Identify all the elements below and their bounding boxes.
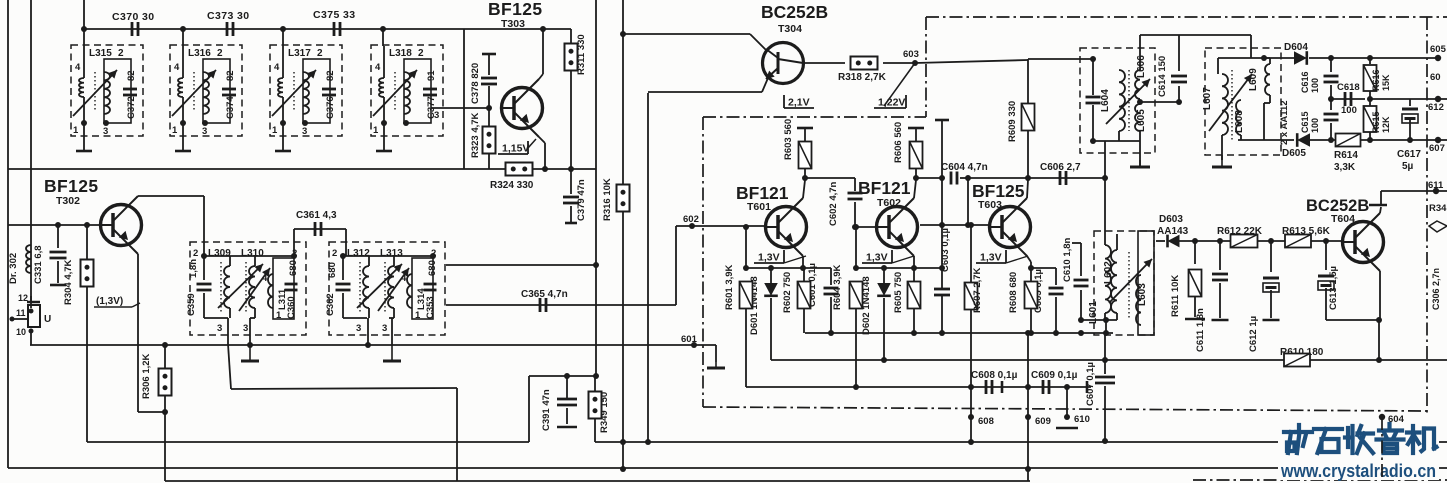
svg-text:R306 1,2K: R306 1,2K <box>141 353 152 399</box>
svg-text:2: 2 <box>193 248 198 259</box>
svg-text:C603 0,1µ: C603 0,1µ <box>940 228 951 272</box>
svg-text:C306 2,7n: C306 2,7n <box>1431 268 1441 310</box>
svg-text:3: 3 <box>302 126 307 137</box>
svg-text:605: 605 <box>1430 44 1447 55</box>
svg-text:C361 4,3: C361 4,3 <box>296 210 337 221</box>
svg-text:C613 1,5µ: C613 1,5µ <box>1328 266 1339 310</box>
svg-text:R614: R614 <box>1334 150 1358 161</box>
svg-text:3: 3 <box>103 126 108 137</box>
svg-text:82: 82 <box>325 70 336 81</box>
svg-text:12: 12 <box>18 293 28 303</box>
svg-text:C618: C618 <box>1337 82 1360 93</box>
svg-text:L605: L605 <box>1136 109 1147 132</box>
svg-text:C375 33: C375 33 <box>313 9 356 21</box>
svg-text:3,3K: 3,3K <box>1334 162 1356 173</box>
svg-text:1: 1 <box>373 125 379 136</box>
svg-text:R349 150: R349 150 <box>599 392 610 433</box>
svg-text:R615: R615 <box>1371 111 1381 133</box>
svg-text:(1,3V): (1,3V) <box>96 296 123 307</box>
svg-text:611: 611 <box>1428 180 1444 191</box>
svg-text:C353: C353 <box>425 296 436 319</box>
svg-text:2 x AA112: 2 x AA112 <box>1279 100 1290 145</box>
svg-text:R318 2,7K: R318 2,7K <box>838 72 887 83</box>
svg-text:D605: D605 <box>1282 148 1306 159</box>
svg-text:C609 0,1µ: C609 0,1µ <box>1031 370 1078 381</box>
svg-text:609: 609 <box>1035 416 1051 427</box>
svg-text:1: 1 <box>172 125 178 136</box>
svg-text:4: 4 <box>174 62 180 73</box>
svg-text:R607 2,7K: R607 2,7K <box>972 267 983 313</box>
svg-text:R304 4,7K: R304 4,7K <box>63 259 74 305</box>
svg-text:3: 3 <box>434 110 439 121</box>
svg-text:5µ: 5µ <box>1402 161 1414 172</box>
svg-text:4: 4 <box>75 62 81 73</box>
svg-text:L608: L608 <box>1234 110 1245 133</box>
svg-text:R324 330: R324 330 <box>490 180 534 191</box>
svg-text:D603: D603 <box>1159 214 1183 225</box>
svg-text:1,3V: 1,3V <box>980 252 1002 264</box>
svg-text:L603: L603 <box>1137 283 1148 306</box>
svg-text:C604 4,7n: C604 4,7n <box>941 162 988 173</box>
svg-text:3: 3 <box>356 323 361 334</box>
svg-text:10: 10 <box>16 327 26 337</box>
svg-text:T601: T601 <box>747 201 771 213</box>
svg-text:C607 0,1µ: C607 0,1µ <box>1085 362 1096 406</box>
svg-text:82: 82 <box>225 70 236 81</box>
svg-text:1,3V: 1,3V <box>866 252 888 264</box>
svg-text:C331 6,8: C331 6,8 <box>33 245 44 284</box>
svg-text:680: 680 <box>288 260 299 276</box>
svg-text:R616: R616 <box>1371 69 1381 91</box>
svg-text:15K: 15K <box>1381 74 1391 91</box>
svg-text:R604 3,9K: R604 3,9K <box>832 264 843 310</box>
svg-text:C602 4,7n: C602 4,7n <box>828 181 839 226</box>
svg-text:604: 604 <box>1388 414 1405 425</box>
svg-text:603: 603 <box>903 49 919 60</box>
svg-text:1: 1 <box>272 125 278 136</box>
svg-text:1,3V: 1,3V <box>758 252 780 264</box>
svg-text:L315: L315 <box>89 48 112 59</box>
svg-text:680: 680 <box>327 262 338 278</box>
svg-text:601: 601 <box>681 334 698 345</box>
svg-text:AA143: AA143 <box>1157 226 1189 237</box>
svg-text:2,1V: 2,1V <box>788 97 810 109</box>
svg-text:L313: L313 <box>380 248 403 259</box>
svg-text:D604: D604 <box>1284 42 1308 53</box>
svg-text:C365 4,7n: C365 4,7n <box>521 289 568 300</box>
svg-text:C374: C374 <box>225 96 236 119</box>
svg-text:R605 750: R605 750 <box>893 272 904 313</box>
svg-text:1,8n: 1,8n <box>188 259 199 278</box>
svg-text:L606: L606 <box>1136 55 1147 78</box>
svg-text:1,22V: 1,22V <box>878 97 905 109</box>
svg-text:C608 0,1µ: C608 0,1µ <box>971 370 1018 381</box>
svg-text:C370 30: C370 30 <box>112 11 155 23</box>
svg-text:C376: C376 <box>325 96 336 119</box>
svg-text:BF125: BF125 <box>488 0 543 19</box>
svg-text:L609: L609 <box>1248 68 1259 91</box>
svg-text:R602 750: R602 750 <box>782 272 793 313</box>
svg-text:L309: L309 <box>208 248 231 259</box>
svg-text:BF125: BF125 <box>972 181 1025 201</box>
svg-text:2: 2 <box>217 48 223 59</box>
svg-text:C379 47n: C379 47n <box>576 179 587 221</box>
svg-text:602: 602 <box>683 214 699 225</box>
svg-text:R608 680: R608 680 <box>1008 272 1019 313</box>
svg-text:2: 2 <box>118 48 124 59</box>
svg-text:11: 11 <box>16 308 26 318</box>
svg-text:L604: L604 <box>1100 89 1111 112</box>
svg-text:608: 608 <box>978 416 994 427</box>
svg-text:L316: L316 <box>188 48 211 59</box>
svg-text:C616: C616 <box>1300 71 1310 93</box>
svg-text:www.crystalradio.cn: www.crystalradio.cn <box>1280 461 1436 481</box>
svg-text:1,15V: 1,15V <box>502 143 529 155</box>
svg-text:100: 100 <box>1310 78 1320 93</box>
svg-text:3: 3 <box>202 126 207 137</box>
svg-text:R34: R34 <box>1429 203 1447 214</box>
svg-text:82: 82 <box>126 70 137 81</box>
svg-text:607: 607 <box>1429 143 1445 154</box>
svg-text:12K: 12K <box>1381 116 1391 133</box>
svg-text:3: 3 <box>382 323 387 334</box>
svg-text:C391 47n: C391 47n <box>541 389 552 431</box>
svg-text:L602: L602 <box>1103 261 1114 284</box>
svg-text:3: 3 <box>217 323 222 334</box>
svg-text:R606 560: R606 560 <box>893 122 904 163</box>
svg-text:4: 4 <box>375 62 381 73</box>
svg-text:C617: C617 <box>1397 149 1421 160</box>
svg-text:680: 680 <box>427 260 438 276</box>
svg-text:2: 2 <box>332 248 337 259</box>
svg-text:C611 1,8n: C611 1,8n <box>1195 308 1206 352</box>
svg-text:BF121: BF121 <box>858 178 911 198</box>
svg-text:3: 3 <box>243 323 248 334</box>
svg-text:L318: L318 <box>389 48 412 59</box>
svg-text:C372: C372 <box>126 96 137 119</box>
svg-text:R323 4,7K: R323 4,7K <box>470 112 481 158</box>
svg-text:100: 100 <box>1341 105 1357 116</box>
svg-text:C362: C362 <box>325 293 336 316</box>
svg-text:C360: C360 <box>286 296 297 319</box>
svg-text:4: 4 <box>274 62 280 73</box>
svg-text:C612 1µ: C612 1µ <box>1248 316 1259 352</box>
svg-text:C610 1,8n: C610 1,8n <box>1062 237 1073 282</box>
svg-text:C615: C615 <box>1300 111 1310 133</box>
svg-text:612: 612 <box>1428 102 1444 113</box>
svg-text:60: 60 <box>1430 72 1441 83</box>
svg-text:R316 10K: R316 10K <box>602 178 613 221</box>
svg-text:C614 150: C614 150 <box>1157 56 1168 97</box>
svg-text:R311 330: R311 330 <box>576 34 587 75</box>
svg-text:L312: L312 <box>347 248 370 259</box>
svg-text:2: 2 <box>317 48 323 59</box>
svg-text:R601 3,9K: R601 3,9K <box>724 264 735 310</box>
svg-text:R609 330: R609 330 <box>1007 101 1018 142</box>
svg-text:610: 610 <box>1074 414 1090 425</box>
svg-text:BF121: BF121 <box>736 183 789 203</box>
svg-text:1: 1 <box>73 125 79 136</box>
svg-text:C373 30: C373 30 <box>207 10 250 22</box>
svg-text:L317: L317 <box>288 48 311 59</box>
svg-text:Dr. 302: Dr. 302 <box>8 253 19 284</box>
svg-text:C359: C359 <box>186 293 197 316</box>
svg-text:2: 2 <box>418 48 424 59</box>
svg-text:R611 10K: R611 10K <box>1170 275 1181 317</box>
svg-text:U: U <box>44 314 51 325</box>
svg-text:91: 91 <box>426 70 437 81</box>
svg-text:BC252B: BC252B <box>761 2 828 22</box>
svg-text:R603 560: R603 560 <box>783 119 794 160</box>
svg-text:C378 820: C378 820 <box>470 63 481 104</box>
svg-text:100: 100 <box>1310 118 1320 133</box>
svg-text:L310: L310 <box>241 248 264 259</box>
svg-text:T302: T302 <box>56 195 80 207</box>
svg-text:T304: T304 <box>778 23 802 35</box>
svg-text:T303: T303 <box>501 18 525 30</box>
svg-text:C606 2,7: C606 2,7 <box>1040 162 1081 173</box>
svg-text:BF125: BF125 <box>44 176 99 196</box>
svg-text:L607: L607 <box>1202 87 1213 110</box>
